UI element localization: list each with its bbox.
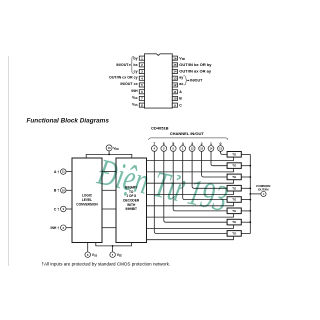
wire ch0	[221, 151, 228, 154]
svg-text:CHANNEL IN/OUT: CHANNEL IN/OUT	[170, 131, 205, 136]
svg-text:INHIBIT: INHIBIT	[125, 207, 137, 211]
wire ch1	[211, 151, 227, 165]
IC package U1 body	[145, 54, 173, 108]
svg-text:†All inputs are protected by s: †All inputs are protected by standard CM…	[42, 262, 171, 267]
svg-text:5: 5	[172, 142, 174, 146]
svg-text:bx: bx	[133, 63, 137, 67]
decoder control wires to TGs	[147, 157, 234, 240]
svg-text:B †: B †	[54, 189, 59, 193]
svg-text:C †: C †	[54, 207, 59, 211]
wire ch3	[192, 151, 227, 188]
svg-text:ay: ay	[179, 76, 183, 80]
svg-text:Functional Block Diagrams: Functional Block Diagrams	[27, 118, 110, 125]
svg-text:IN/OUT: IN/OUT	[116, 63, 129, 67]
wire ch7	[154, 151, 227, 233]
pin 7 box	[139, 96, 144, 100]
svg-text:16: 16	[173, 56, 177, 60]
pin 1 box	[139, 56, 144, 60]
svg-text:INH †: INH †	[51, 226, 60, 230]
pin 11 box	[172, 90, 177, 94]
channel bracket	[149, 138, 228, 140]
left IN/OUT brace pins 1-3	[130, 56, 134, 73]
pin 3 box	[139, 70, 144, 74]
pin 9 box	[172, 103, 177, 107]
svg-text:A: A	[179, 90, 182, 94]
svg-text:7: 7	[153, 142, 155, 146]
svg-text:10: 10	[173, 97, 177, 101]
pin 12 box	[172, 83, 177, 87]
COMMON OUT/IN terminal circle 3	[261, 191, 266, 196]
svg-text:3: 3	[191, 142, 193, 146]
pin 2 box	[139, 63, 144, 67]
svg-text:LEVEL: LEVEL	[82, 198, 92, 202]
svg-text:13: 13	[173, 76, 177, 80]
pin 15 box	[172, 63, 177, 67]
pin 14 box	[172, 70, 177, 74]
svg-text:IN/OUT cx: IN/OUT cx	[120, 82, 137, 86]
binary 1 of 8 decoder box	[116, 158, 147, 243]
pin 13 box	[172, 76, 177, 80]
pin 8 box	[139, 103, 144, 107]
pin 16 box	[172, 56, 177, 60]
svg-text:OUT/IN ax OR ay: OUT/IN ax OR ay	[179, 69, 212, 74]
svg-text:15: 15	[173, 63, 177, 67]
TG switch boxes	[227, 152, 241, 237]
svg-text:6: 6	[163, 142, 165, 146]
common vertical wire	[249, 154, 251, 233]
logic level conversion box	[72, 158, 102, 243]
svg-text:B: B	[179, 97, 182, 101]
svg-text:OUT/IN: OUT/IN	[258, 188, 269, 192]
right IN/OUT brace pins 13-12	[184, 76, 188, 85]
svg-text:4: 4	[182, 142, 184, 146]
svg-text:14: 14	[173, 70, 177, 74]
svg-text:VDD: VDD	[179, 56, 185, 61]
VSS terminal 8	[87, 243, 89, 252]
wire ch5	[173, 151, 227, 211]
COMMON OUT/IN tap wire	[250, 193, 261, 195]
pin 4 box	[139, 76, 144, 80]
pin 6 box	[139, 90, 144, 94]
wire ch6	[164, 151, 227, 222]
svg-text:IN/OUT: IN/OUT	[190, 79, 203, 83]
svg-text:CD4051B: CD4051B	[151, 126, 169, 131]
svg-text:by: by	[133, 56, 137, 60]
right IN/OUT arrow	[187, 80, 189, 82]
page edge line	[8, 56, 10, 266]
VDD terminal 16	[106, 145, 112, 151]
svg-text:A †: A †	[54, 170, 59, 174]
svg-text:12: 12	[173, 83, 177, 87]
junction dots on common line	[249, 165, 251, 223]
wires between boxes	[102, 172, 116, 228]
svg-text:VEE: VEE	[132, 96, 138, 101]
svg-text:cy: cy	[134, 70, 138, 74]
channel terminal circles with pin numbers	[151, 146, 223, 152]
svg-text:INH: INH	[131, 89, 138, 93]
svg-text:ax: ax	[179, 82, 183, 86]
svg-text:LOGIC: LOGIC	[82, 194, 93, 198]
pin 10 box	[172, 96, 177, 100]
svg-text:OUT/IN cx OR cy: OUT/IN cx OR cy	[109, 76, 138, 80]
svg-text:VSS: VSS	[132, 102, 138, 107]
svg-text:1: 1	[210, 142, 212, 146]
wire ch2	[202, 151, 228, 177]
channel wires from terminals to TG switches	[154, 151, 227, 233]
left IN/OUT arrow	[129, 64, 131, 66]
svg-text:OUT/IN bx OR by: OUT/IN bx OR by	[179, 62, 212, 67]
VEE terminal 7 wire	[96, 243, 132, 252]
wire ch4	[183, 151, 227, 199]
svg-text:C: C	[179, 103, 182, 107]
VDD wire	[86, 151, 132, 158]
TG output wires to common line	[241, 154, 250, 233]
svg-text:2: 2	[201, 142, 203, 146]
svg-text:CONVERSION: CONVERSION	[76, 203, 98, 207]
pin 5 box	[139, 83, 144, 87]
svg-text:11: 11	[173, 90, 177, 94]
svg-text:0: 0	[220, 142, 222, 146]
